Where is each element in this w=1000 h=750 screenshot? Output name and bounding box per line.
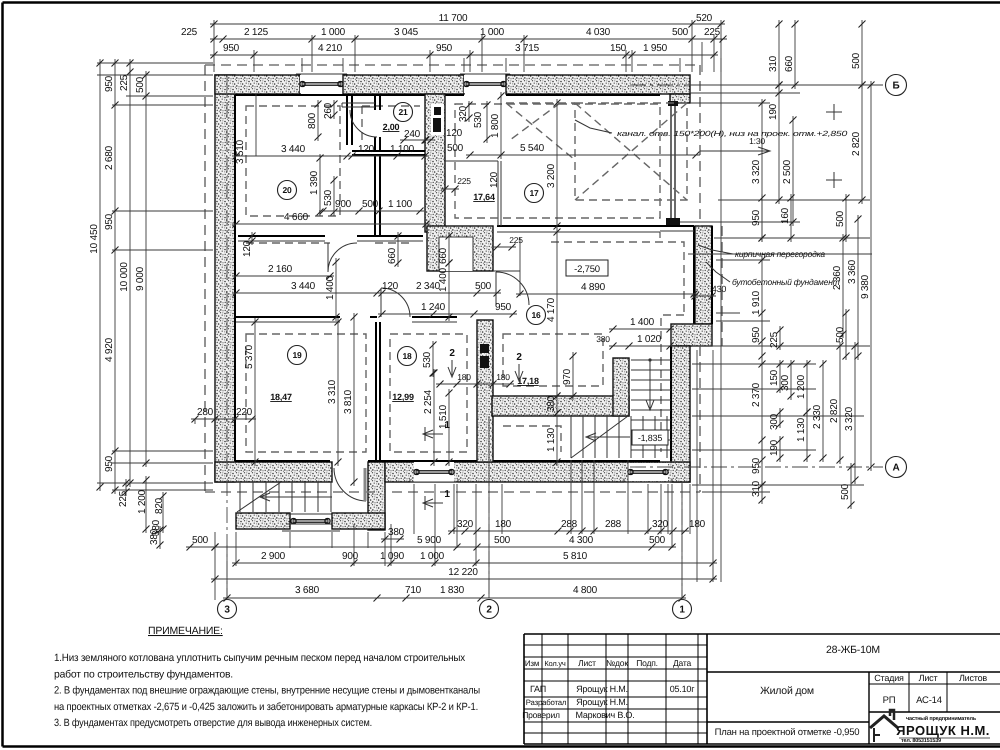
svg-text:530: 530	[473, 111, 484, 128]
svg-text:1 830: 1 830	[440, 585, 465, 596]
axis line 1 vertical	[681, 482, 683, 596]
interior staircase lower flight	[570, 416, 572, 458]
dim col 9000 with 500	[145, 71, 147, 467]
svg-text:1 400: 1 400	[630, 317, 655, 328]
svg-text:950: 950	[751, 326, 762, 343]
svg-text:АС-14: АС-14	[916, 695, 942, 706]
foundation dashed outer right	[699, 65, 701, 226]
svg-text:тел. 8053151539: тел. 8053151539	[901, 738, 941, 744]
porch slab left	[236, 513, 290, 529]
door corridor from room 20	[328, 243, 357, 272]
central chimney wall between rooms 21 and 17	[425, 94, 445, 232]
hall south wall	[492, 396, 629, 416]
axis bubble 1	[673, 600, 692, 619]
svg-text:320: 320	[457, 519, 474, 530]
svg-text:2: 2	[449, 348, 455, 359]
dim 3310 3810	[337, 318, 339, 466]
svg-text:950: 950	[495, 302, 512, 313]
svg-text:Разработал: Разработал	[526, 698, 567, 707]
wall step block right	[671, 324, 712, 346]
svg-text:1 130: 1 130	[796, 417, 807, 442]
svg-text:№док: №док	[606, 658, 628, 668]
svg-text:кирпичная перегородка: кирпичная перегородка	[735, 249, 825, 259]
svg-text:950: 950	[436, 43, 453, 54]
foundation dashed inner hall	[551, 242, 684, 452]
svg-text:500: 500	[494, 535, 511, 546]
entrance outside steps	[239, 482, 241, 512]
svg-text:2 160: 2 160	[268, 264, 293, 275]
svg-text:300: 300	[769, 413, 780, 430]
svg-text:28-ЖБ-10М: 28-ЖБ-10М	[826, 644, 880, 656]
dim row 225 2125 1000 3045 1000 4030 500 225	[210, 38, 727, 40]
svg-text:150: 150	[769, 369, 780, 386]
svg-text:-1,835: -1,835	[638, 433, 663, 443]
partition below T down to corridor wall	[375, 155, 380, 236]
T-wall room 21 bottom	[352, 151, 425, 155]
svg-text:225: 225	[704, 27, 721, 38]
svg-text:Изм: Изм	[525, 659, 539, 668]
foundation dashed outer bottom	[205, 491, 378, 493]
svg-text:Проверил: Проверил	[522, 710, 560, 720]
svg-text:120: 120	[489, 171, 500, 188]
svg-text:17,64: 17,64	[473, 192, 495, 202]
svg-text:на проектных отметках -2,675 и: на проектных отметках -2,675 и -0,425 за…	[54, 701, 478, 713]
dim col right below A 950 310 500	[761, 436, 763, 489]
dim row 3440 120 1100 at y153	[232, 155, 429, 157]
svg-text:18: 18	[402, 351, 412, 361]
axis line 2 vertical	[488, 416, 490, 596]
svg-text:1 400: 1 400	[438, 267, 449, 292]
corridor vent shaft walls	[427, 226, 493, 271]
svg-text:4 920: 4 920	[104, 337, 115, 362]
svg-text:4 890: 4 890	[581, 282, 606, 293]
axis bubble 3	[218, 600, 237, 619]
interior dim 800 260 row	[317, 100, 319, 141]
foundation dashed inner room16	[503, 334, 603, 386]
foundation dashed stair area	[503, 426, 561, 452]
room 18 bubble	[398, 347, 417, 366]
window W4 bottom	[414, 462, 454, 482]
svg-text:3. В фундаментах предусмотреть: 3. В фундаментах предусмотреть отверстие…	[54, 717, 372, 729]
svg-text:300: 300	[780, 374, 791, 391]
interior staircase upper flight	[631, 359, 671, 361]
wall above rooms 19-18	[236, 316, 457, 318]
svg-text:10 000: 10 000	[119, 262, 130, 292]
svg-text:660: 660	[438, 247, 449, 264]
svg-text:2 254: 2 254	[423, 389, 434, 414]
stair arrow lower flight	[586, 433, 630, 441]
svg-text:1 090: 1 090	[380, 551, 405, 562]
svg-text:1 910: 1 910	[751, 290, 762, 315]
corridor vertical dims 660 1400	[397, 232, 399, 267]
dim col right mid 950 160 500	[761, 194, 763, 242]
axis line A horizontal	[630, 466, 883, 468]
svg-text:660: 660	[387, 247, 398, 264]
svg-text:900: 900	[342, 551, 359, 562]
foundation dashed corridor	[246, 242, 412, 244]
svg-text:РП: РП	[883, 695, 896, 706]
title block vertical lines left part	[541, 634, 543, 744]
svg-text:Стадия: Стадия	[874, 673, 904, 683]
svg-text:3 360: 3 360	[847, 259, 858, 284]
svg-text:225: 225	[181, 27, 198, 38]
svg-text:120: 120	[358, 144, 375, 155]
outer wall inner face lines	[235, 95, 671, 461]
svg-text:500: 500	[135, 76, 146, 93]
svg-text:4 300: 4 300	[569, 535, 594, 546]
foundation dashed inner room21	[362, 106, 420, 140]
svg-text:12,99: 12,99	[392, 392, 414, 402]
svg-text:2 820: 2 820	[829, 398, 840, 423]
svg-text:225: 225	[509, 235, 523, 245]
svg-text:9 000: 9 000	[135, 266, 146, 291]
svg-text:2: 2	[486, 605, 492, 616]
outer wall bottom right segment	[385, 462, 690, 482]
svg-text:работ по строительству фундаме: работ по строительству фундаментов.	[54, 668, 233, 680]
entrance steps arrow	[260, 493, 332, 501]
svg-text:4 210: 4 210	[318, 43, 343, 54]
vent duct black blocks top	[431, 104, 444, 135]
partition rooms 19-18	[376, 322, 380, 462]
svg-text:2 500: 2 500	[782, 159, 793, 184]
svg-text:11 700: 11 700	[439, 13, 468, 24]
svg-text:310: 310	[751, 480, 762, 497]
svg-text:380: 380	[151, 519, 162, 536]
dim 380 1020 1400	[609, 328, 674, 330]
svg-text:380: 380	[596, 334, 610, 344]
svg-text:3 510: 3 510	[235, 139, 246, 164]
svg-text:225: 225	[118, 490, 129, 507]
dim 5540 3200 1800	[466, 154, 700, 156]
svg-text:180: 180	[457, 372, 471, 382]
svg-text:180: 180	[496, 372, 510, 382]
svg-text:1 100: 1 100	[388, 199, 413, 210]
svg-text:260: 260	[323, 102, 334, 119]
svg-text:План на проектной отметке -0,9: План на проектной отметке -0,950	[715, 727, 860, 738]
hall east partition face	[693, 226, 695, 324]
svg-text:1 000: 1 000	[480, 27, 505, 38]
outer wall right upper pier	[670, 94, 690, 103]
dim 380 near stairs	[381, 538, 404, 540]
svg-text:20: 20	[282, 185, 292, 195]
svg-text:970: 970	[562, 368, 573, 385]
dim 380 1130 right	[556, 392, 558, 417]
outer wall bottom left segment	[215, 462, 332, 482]
svg-text:1 200: 1 200	[137, 489, 148, 514]
svg-text:190: 190	[768, 103, 779, 120]
outer wall right lower	[671, 346, 690, 482]
svg-text:05.10г: 05.10г	[670, 684, 696, 694]
window W5 bottom	[628, 463, 668, 481]
axis bubble A	[886, 457, 907, 478]
window W2 top	[464, 75, 506, 93]
svg-text:1 100: 1 100	[390, 144, 415, 155]
svg-text:2 125: 2 125	[244, 27, 269, 38]
hall east brick partition foundation	[695, 226, 712, 324]
title block outer	[524, 633, 1000, 635]
svg-text:500: 500	[672, 27, 689, 38]
dim col 10450	[99, 59, 101, 491]
svg-text:2 900: 2 900	[261, 551, 286, 562]
svg-text:1: 1	[444, 489, 450, 500]
svg-text:частный предприниматель: частный предприниматель	[906, 715, 977, 722]
svg-text:180: 180	[689, 519, 706, 530]
flue leader dashed lines	[506, 103, 575, 160]
foundation dashed inner room18	[390, 334, 467, 452]
svg-text:Лист: Лист	[919, 673, 938, 683]
extension lines top	[213, 20, 215, 72]
wall below rooms 20-21	[238, 235, 423, 237]
svg-text:500: 500	[475, 281, 492, 292]
svg-text:Ярощук Н.М.: Ярощук Н.М.	[576, 684, 628, 694]
door corridor to room 18	[381, 288, 410, 317]
room 16 east boundary	[493, 270, 520, 272]
outer wall top segment 3	[506, 75, 690, 94]
svg-text:120: 120	[242, 240, 253, 257]
svg-text:3 715: 3 715	[515, 43, 540, 54]
svg-text:4 800: 4 800	[573, 585, 598, 596]
svg-text:380: 380	[388, 527, 405, 538]
svg-text:900: 900	[335, 199, 352, 210]
svg-text:120: 120	[446, 128, 463, 139]
level mark -1,835	[632, 430, 668, 445]
svg-text:2 330: 2 330	[812, 404, 823, 429]
svg-text:150: 150	[610, 43, 627, 54]
svg-text:2 680: 2 680	[104, 145, 115, 170]
svg-text:5 370: 5 370	[244, 344, 255, 369]
stair doorway side wall block	[368, 462, 385, 530]
svg-text:бутобетонный фундамент: бутобетонный фундамент	[732, 277, 840, 287]
svg-text:220: 220	[236, 407, 253, 418]
svg-text:950: 950	[104, 75, 115, 92]
svg-text:Кол.уч: Кол.уч	[544, 659, 566, 668]
dim 530 180 180 section2	[432, 341, 434, 377]
svg-text:500: 500	[192, 535, 209, 546]
svg-text:530: 530	[323, 189, 334, 206]
svg-text:320: 320	[652, 519, 669, 530]
dim 225 in room 17	[441, 188, 459, 190]
svg-text:240: 240	[404, 129, 421, 140]
svg-text:380: 380	[546, 395, 557, 412]
svg-text:канал. отв. 150*200(Н), низ на: канал. отв. 150*200(Н), низ на проек. от…	[617, 129, 848, 138]
svg-text:А: А	[892, 463, 899, 474]
foundation dashed outer left	[204, 65, 206, 492]
svg-text:950: 950	[223, 43, 240, 54]
foundation dashed inner room20	[246, 106, 340, 216]
svg-text:820: 820	[154, 497, 165, 514]
dim row 3440 120 2340 500 corridor	[232, 292, 501, 294]
dim row 320 180 288 288 320 180	[448, 530, 689, 532]
hall east wall face lines	[711, 226, 713, 324]
svg-text:500: 500	[649, 535, 666, 546]
room 19 bubble	[288, 346, 307, 365]
dim row 2900 900 1090 1000 5810	[232, 562, 717, 564]
window W1 top	[300, 75, 343, 93]
svg-text:ГАП: ГАП	[530, 684, 546, 694]
level mark -2,750	[566, 260, 608, 276]
svg-text:3 680: 3 680	[295, 585, 320, 596]
foundation dashed inner room19	[246, 334, 366, 452]
svg-text:225: 225	[769, 331, 780, 348]
svg-text:500: 500	[447, 143, 464, 154]
svg-text:Лист: Лист	[578, 658, 596, 668]
svg-text:1: 1	[444, 420, 450, 431]
foundation dashed inner room17	[455, 104, 660, 218]
svg-text:1 020: 1 020	[637, 334, 662, 345]
svg-text:500: 500	[362, 199, 379, 210]
svg-text:1.Низ земляного котлована у: 1.Низ земляного котлована уплотнить сыпу…	[54, 652, 466, 664]
small dims bottom-left 225 1200 820 380 500	[125, 479, 127, 496]
vent wall between rooms 18 and 16	[477, 320, 493, 462]
svg-text:950: 950	[104, 213, 115, 230]
svg-text:520: 520	[696, 13, 713, 24]
svg-text:12 220: 12 220	[448, 567, 478, 578]
extension lines bottom	[214, 532, 216, 600]
svg-text:225: 225	[457, 176, 471, 186]
axis bubble B	[886, 75, 907, 96]
dim row 5900 500 4300 500	[211, 546, 676, 548]
dim 240	[400, 139, 429, 141]
leader butobetonny fundament	[706, 262, 730, 282]
extension lines left	[97, 62, 213, 64]
svg-text:2,00: 2,00	[383, 122, 400, 132]
svg-text:1 130: 1 130	[546, 427, 557, 452]
svg-text:500: 500	[835, 210, 846, 227]
svg-text:5 540: 5 540	[520, 143, 545, 154]
svg-text:9 380: 9 380	[860, 274, 871, 299]
svg-text:2 370: 2 370	[751, 382, 762, 407]
svg-text:190: 190	[769, 439, 780, 456]
dashed line under top wall right	[506, 102, 575, 104]
svg-text:4 030: 4 030	[586, 27, 611, 38]
svg-text:280: 280	[197, 407, 214, 418]
svg-text:Жилой дом: Жилой дом	[760, 685, 814, 697]
dim col 950 2680 950 4920 950	[114, 59, 116, 494]
room 17 partition southwest	[445, 161, 501, 226]
svg-text:3 045: 3 045	[394, 27, 419, 38]
title block horizontal lines left part	[524, 644, 707, 646]
extension lines right	[213, 62, 215, 64]
dim row 11700 / 520	[210, 23, 725, 25]
svg-text:4 170: 4 170	[546, 297, 557, 322]
svg-text:Дата: Дата	[673, 658, 691, 668]
svg-text:4 660: 4 660	[284, 212, 309, 223]
dim col right 950 225 500 lower	[761, 309, 763, 360]
svg-text:1 240: 1 240	[421, 302, 446, 313]
svg-text:1 390: 1 390	[309, 170, 320, 195]
svg-text:800: 800	[307, 112, 318, 129]
room 20 bubble	[278, 181, 297, 200]
title block right part lines	[707, 671, 1000, 673]
axis bubble 2	[480, 600, 499, 619]
svg-text:1 200: 1 200	[796, 374, 807, 399]
svg-text:660: 660	[784, 55, 795, 72]
dim 280 220 at left wall	[191, 418, 256, 420]
outer wall top segment 2	[343, 75, 464, 94]
svg-text:Листов: Листов	[959, 673, 987, 683]
outer wall top segment 1	[215, 75, 300, 94]
dim 430 wall width	[691, 295, 716, 297]
svg-text:21: 21	[398, 107, 408, 117]
svg-text:500: 500	[851, 52, 862, 69]
svg-text:3 310: 3 310	[327, 379, 338, 404]
svg-text:17: 17	[529, 188, 539, 198]
svg-text:-2,750: -2,750	[574, 264, 600, 275]
svg-text:2 820: 2 820	[851, 131, 862, 156]
svg-text:3 200: 3 200	[546, 163, 557, 188]
svg-text:225: 225	[119, 74, 130, 91]
svg-text:530: 530	[422, 351, 433, 368]
partition stubs and door room 21	[375, 94, 380, 151]
extension line across hall wall	[688, 253, 872, 255]
dim row 950 4210 950 3715 150 1950	[210, 54, 718, 56]
room 16 bubble	[527, 306, 546, 325]
porch slab right	[332, 513, 385, 529]
svg-text:1 000: 1 000	[321, 27, 346, 38]
foundation dashed outer top	[205, 64, 700, 66]
dim row 1240 950	[378, 313, 517, 315]
dim col right cluster 150 300 1200 2370 ...	[779, 360, 781, 393]
svg-text:5 810: 5 810	[563, 551, 588, 562]
room 21 bubble	[394, 103, 413, 122]
svg-text:3 320: 3 320	[844, 406, 855, 431]
svg-text:1: 1	[679, 605, 685, 616]
room 17 south wall	[497, 225, 694, 227]
logo house icon	[870, 716, 898, 728]
dim 2254 1510 970	[433, 369, 435, 466]
svg-text:1 950: 1 950	[643, 43, 668, 54]
svg-text:500: 500	[840, 483, 851, 500]
dim 225 small near room16	[493, 246, 516, 248]
svg-text:160: 160	[780, 207, 791, 224]
leader kirpichnaya peregorodka	[698, 245, 733, 254]
svg-text:3 320: 3 320	[751, 159, 762, 184]
dim 5370	[254, 318, 256, 466]
svg-text:120: 120	[382, 281, 399, 292]
svg-text:430: 430	[712, 284, 727, 294]
dim row 900 500 1100	[319, 210, 424, 212]
svg-text:3: 3	[224, 605, 230, 616]
svg-text:2. В фундаментах под внешние о: 2. В фундаментах под внешние ограждающие…	[54, 685, 480, 697]
door corridor to room 16	[496, 272, 529, 305]
dim col right 1910 2360 3360 9380	[761, 256, 763, 345]
svg-text:310: 310	[768, 55, 779, 72]
dim col 10000 with 225	[129, 59, 131, 487]
svg-text:Ярощук Н.М.: Ярощук Н.М.	[576, 697, 628, 707]
room 17 bubble	[525, 184, 544, 203]
svg-text:1 800: 1 800	[490, 113, 501, 138]
svg-text:950: 950	[751, 457, 762, 474]
svg-text:1 000: 1 000	[420, 551, 445, 562]
svg-text:2: 2	[516, 352, 522, 363]
svg-text:Б: Б	[893, 81, 900, 92]
svg-text:19: 19	[292, 350, 302, 360]
svg-text:5 900: 5 900	[417, 535, 442, 546]
partition room 20 right	[347, 96, 352, 145]
svg-text:180: 180	[495, 519, 512, 530]
svg-text:10 450: 10 450	[89, 224, 100, 254]
svg-text:3 440: 3 440	[291, 281, 316, 292]
axis line 3 vertical	[226, 75, 228, 596]
outer wall left	[215, 75, 235, 482]
svg-text:ЯРОЩУК Н.М.: ЯРОЩУК Н.М.	[896, 723, 990, 738]
axis line B horizontal	[630, 84, 883, 86]
chimney shaft dashed X box in room 17	[575, 103, 687, 200]
dim 4890 4170	[519, 238, 521, 296]
dim row 3680 710 1830 4800	[223, 597, 686, 599]
svg-text:2 340: 2 340	[416, 281, 441, 292]
svg-text:18,47: 18,47	[270, 392, 292, 402]
